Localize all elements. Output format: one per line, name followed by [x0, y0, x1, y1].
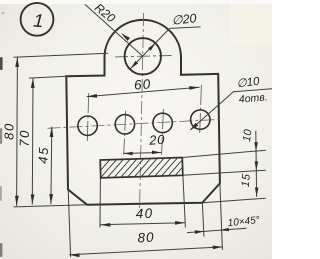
- hole 1 D10: [78, 116, 97, 135]
- hole 2 D10: [115, 115, 134, 134]
- hatch bottom edge extension right: [183, 170, 266, 175]
- dimension 70 left vertical: [31, 78, 34, 205]
- svg-text:60: 60: [133, 76, 151, 92]
- svg-text:∅20: ∅20: [171, 11, 197, 28]
- R20 leader line: [85, 4, 143, 56]
- D10 leader to hole 4: [191, 91, 234, 129]
- dimension 20 between holes 2-3: [123, 152, 161, 155]
- svg-text:40: 40: [135, 206, 153, 222]
- extension of plate top edge to the left: [29, 76, 67, 78]
- dimension 80 bottom line: [69, 247, 223, 255]
- right vertical dimension line for 10 and 15: [255, 131, 258, 197]
- dimension 40 line: [100, 223, 185, 225]
- svg-text:70: 70: [17, 129, 32, 147]
- dimension 80 left vertical: [16, 57, 19, 206]
- hole 2 vertical centerline: [124, 111, 126, 156]
- horizontal centerline through hole row: [48, 119, 224, 128]
- dimension 45 left vertical: [50, 127, 53, 205]
- chamfer extension line: [202, 203, 204, 237]
- boss hole circle D20: [125, 38, 161, 74]
- hatch lines: [92, 155, 206, 180]
- hole 4 D10: [191, 110, 210, 129]
- hole 3 D10: [153, 113, 172, 132]
- hole 4 vertical centerline: [200, 85, 202, 134]
- plate outline with R20 boss and chamfered bottom corners: [66, 20, 220, 205]
- horizontal centerline of boss circle: [115, 56, 172, 57]
- D10 text shelf: [233, 89, 272, 92]
- dimension 40 extension lines: [99, 178, 101, 228]
- svg-text:20: 20: [148, 132, 166, 148]
- hole 3 vertical centerline: [162, 109, 164, 155]
- dimension 80 bottom extension lines: [68, 190, 70, 257]
- scan smudge marks on left edge: [0, 57, 3, 70]
- vertical centerline of part: [140, 13, 144, 208]
- dimension 10x45 line: [187, 228, 247, 232]
- svg-text:80: 80: [137, 230, 155, 246]
- hatch top edge extension right: [182, 150, 265, 157]
- svg-text:15: 15: [240, 173, 253, 188]
- extension of bottom edge to the left: [14, 205, 88, 207]
- D20 text shelf: [170, 27, 201, 29]
- position balloon 1: [21, 3, 54, 36]
- hole 1 vertical centerline: [87, 93, 88, 141]
- svg-text:4отв.: 4отв.: [238, 91, 268, 105]
- svg-text:80: 80: [2, 122, 17, 140]
- svg-text:1: 1: [33, 9, 45, 31]
- svg-text:45: 45: [35, 146, 51, 164]
- D20 dimension diagonal across circle: [130, 28, 169, 69]
- extension line top (to R20 arc centre level): [14, 53, 109, 57]
- dimension 60 line over holes: [87, 87, 200, 96]
- extension of bottom edge to the right: [202, 198, 265, 203]
